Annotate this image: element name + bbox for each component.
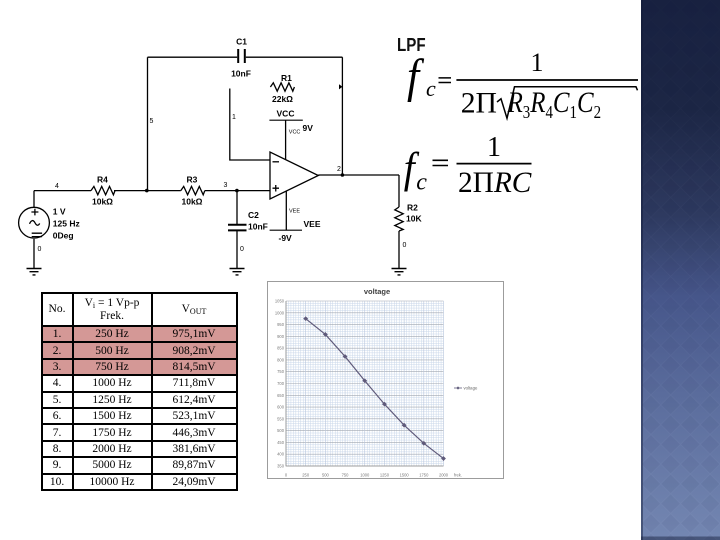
wire C2 branch: [236, 191, 238, 269]
svg-text:650: 650: [277, 393, 285, 398]
svg-text:R3R4C1C2: R3R4C1C2: [507, 85, 601, 123]
svg-text:2ΠRC: 2ΠRC: [458, 166, 532, 199]
svg-text:1: 1: [487, 132, 501, 163]
svg-text:1: 1: [232, 114, 236, 121]
data series line: [306, 319, 444, 459]
svg-text:voltage: voltage: [464, 386, 478, 391]
svg-text:1500: 1500: [400, 473, 410, 478]
data markers: [303, 316, 446, 461]
resistor R3: [181, 186, 205, 194]
wire VEE drop: [285, 192, 287, 231]
ground (source): [27, 269, 42, 275]
y axis labels: [275, 299, 285, 469]
formulas: [395, 40, 645, 210]
x axis labels: [285, 473, 462, 478]
svg-text:0: 0: [240, 246, 244, 253]
svg-text:10kΩ: 10kΩ: [92, 197, 113, 207]
svg-text:700: 700: [277, 381, 285, 386]
right decorative sidebar: [641, 0, 720, 540]
wire top horizontal through C1: [148, 56, 343, 58]
svg-text:10nF: 10nF: [248, 222, 268, 232]
svg-text:10kΩ: 10kΩ: [182, 197, 203, 207]
VEE rail: [270, 229, 302, 231]
svg-text:R3: R3: [187, 175, 198, 185]
axes: [286, 301, 444, 466]
svg-text:1050: 1050: [275, 299, 285, 304]
svg-text:c: c: [416, 169, 427, 195]
svg-text:frek.: frek.: [454, 473, 462, 478]
svg-text:3: 3: [224, 182, 228, 189]
svg-text:500: 500: [322, 473, 330, 478]
wire output to R2: [318, 175, 399, 269]
svg-text:250: 250: [302, 473, 310, 478]
wire node1 stub to inverting input: [230, 89, 270, 161]
svg-text:350: 350: [277, 464, 285, 469]
legend: [454, 386, 478, 391]
svg-text:0: 0: [38, 246, 42, 253]
svg-text:R1: R1: [281, 73, 292, 83]
svg-text:125 Hz: 125 Hz: [53, 219, 80, 229]
wire feedback left vertical node 5: [147, 57, 149, 190]
svg-text:600: 600: [277, 405, 285, 410]
junction node 2 (output): [341, 173, 345, 177]
svg-text:R4: R4: [97, 175, 108, 185]
wire right vertical feedback: [341, 57, 343, 175]
svg-text:voltage: voltage: [364, 287, 390, 296]
svg-text:850: 850: [277, 346, 285, 351]
svg-text:0Deg: 0Deg: [53, 231, 74, 241]
formula 1: fc = 1/(2PI sqrt(R3R4C1C2)): [407, 48, 638, 123]
svg-text:10nF: 10nF: [231, 69, 251, 79]
svg-text:C2: C2: [248, 210, 259, 220]
capacitor C2: [228, 225, 247, 231]
chart frame: [268, 282, 504, 479]
svg-text:C1: C1: [236, 37, 247, 47]
svg-text:1: 1: [531, 48, 544, 77]
svg-text:VEE: VEE: [289, 209, 300, 215]
svg-text:500: 500: [277, 428, 285, 433]
svg-text:900: 900: [277, 334, 285, 339]
svg-text:400: 400: [277, 452, 285, 457]
AC source V1: [19, 207, 50, 238]
svg-text:2: 2: [337, 166, 341, 173]
svg-text:750: 750: [277, 369, 285, 374]
data table: [41, 292, 238, 491]
ground (R2): [392, 269, 407, 275]
svg-text:VCC: VCC: [289, 130, 301, 136]
wire VCC drop: [285, 120, 287, 159]
svg-text:9V: 9V: [303, 123, 314, 133]
wire source top and bottom: [33, 191, 35, 269]
ground (C2): [230, 269, 245, 275]
svg-text:550: 550: [277, 416, 285, 421]
svg-text:1250: 1250: [380, 473, 390, 478]
LPF title: [397, 36, 426, 54]
svg-text:450: 450: [277, 440, 285, 445]
svg-text:22kΩ: 22kΩ: [272, 94, 293, 104]
svg-text:0: 0: [403, 242, 407, 249]
svg-text:1750: 1750: [419, 473, 429, 478]
op-amp U1: [270, 152, 318, 199]
svg-text:4: 4: [55, 183, 59, 190]
major gridlines vertical: [286, 301, 444, 466]
junction on feedback wire near R1: [339, 84, 342, 89]
svg-text:10K: 10K: [406, 214, 422, 224]
major gridlines horizontal: [286, 301, 444, 466]
svg-text:750: 750: [342, 473, 350, 478]
svg-text:f: f: [407, 50, 424, 103]
chart: voltage vs frequency: [267, 281, 504, 479]
junction node B (C2 tap): [235, 189, 239, 193]
svg-text:VCC: VCC: [277, 109, 295, 119]
junction node A (feedback/input): [145, 189, 149, 193]
resistor R4: [91, 186, 115, 194]
svg-text:VEE: VEE: [304, 219, 321, 229]
formula 2: fc = 1/(2PI RC): [404, 132, 533, 199]
svg-text:1 V: 1 V: [53, 207, 66, 217]
wire main input net y=190.6: [34, 190, 270, 192]
VCC rail: [269, 119, 302, 121]
svg-text:-9V: -9V: [279, 233, 293, 243]
svg-text:800: 800: [277, 357, 285, 362]
svg-text:2Π: 2Π: [461, 86, 497, 119]
capacitor C1: [238, 49, 245, 63]
resistor R2 (vertical): [395, 207, 403, 231]
svg-text:950: 950: [277, 322, 285, 327]
svg-text:1000: 1000: [275, 310, 285, 315]
svg-text:5: 5: [150, 118, 154, 125]
svg-text:c: c: [426, 76, 436, 101]
svg-text:1000: 1000: [360, 473, 370, 478]
resistor R1: [270, 83, 294, 91]
plot area with minor grid: [286, 301, 444, 466]
circuit schematic: [0, 0, 460, 290]
svg-text:2000: 2000: [439, 473, 449, 478]
